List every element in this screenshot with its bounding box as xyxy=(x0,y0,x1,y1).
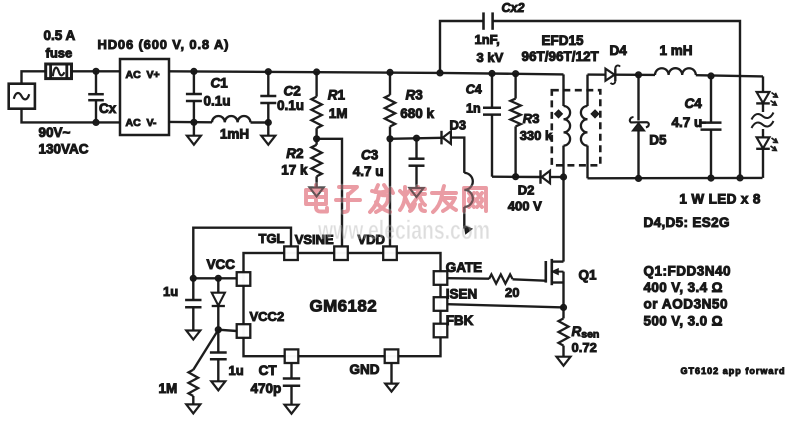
wire to C3 and D3 xyxy=(390,138,442,139)
capacitor VCC2 1u xyxy=(217,330,219,353)
svg-text:R3: R3 xyxy=(523,111,540,126)
fuse F1 0.5A xyxy=(46,64,72,79)
svg-text:20: 20 xyxy=(505,285,519,300)
svg-text:C2: C2 xyxy=(284,83,301,98)
node fuse-Cx junction xyxy=(93,68,99,74)
wire main HV bus xyxy=(169,71,564,74)
pin VCC xyxy=(237,272,251,286)
op-amp U1 GM6182 body xyxy=(244,253,441,356)
svg-text:V-: V- xyxy=(147,117,157,129)
wire D3 to aux winding xyxy=(451,138,464,173)
LED 1 xyxy=(757,92,770,103)
resistor Rsen 0.72 xyxy=(562,307,564,318)
wire VCC2 xyxy=(218,330,236,331)
ground under VCC cap xyxy=(186,331,200,340)
svg-text:www.elecians.com: www.elecians.com xyxy=(317,215,490,245)
svg-text:AC: AC xyxy=(126,117,142,129)
svg-text:3 kV: 3 kV xyxy=(477,50,504,65)
ground under C1 xyxy=(193,122,195,135)
node R1 top xyxy=(314,69,320,75)
wire inductor to LED xyxy=(696,75,763,76)
capacitor C1 xyxy=(193,71,195,94)
wire VSINE link xyxy=(317,139,342,247)
resistor R2 17k xyxy=(315,139,317,145)
svg-text:HD06 (600 V, 0.8 A): HD06 (600 V, 0.8 A) xyxy=(98,37,229,52)
LED 2 xyxy=(757,137,770,148)
svg-text:AC: AC xyxy=(126,69,142,81)
watermark chinese text xyxy=(306,185,486,212)
svg-text:R1: R1 xyxy=(328,88,346,103)
node drain junction xyxy=(560,174,566,180)
capacitor snubber C4 1n xyxy=(491,74,493,108)
svg-text:TGL: TGL xyxy=(259,231,285,246)
svg-text:or AOD3N50: or AOD3N50 xyxy=(644,296,728,311)
svg-text:0.72: 0.72 xyxy=(572,340,597,355)
node VCC cap junction xyxy=(190,275,196,281)
svg-text:470p: 470p xyxy=(251,381,282,396)
node snubber C top xyxy=(489,70,495,76)
svg-text:1 W LED x 8: 1 W LED x 8 xyxy=(679,192,760,207)
node Cx2 left xyxy=(437,70,443,76)
svg-text:130VAC: 130VAC xyxy=(39,141,89,156)
resistor snubber R3 330k xyxy=(514,74,516,99)
node C3 top xyxy=(413,135,419,141)
wire D2 to drain node xyxy=(551,176,564,178)
node C1 top xyxy=(191,68,197,74)
diode D4 xyxy=(606,69,615,81)
wire output rail xyxy=(588,177,763,180)
svg-text:D4,D5: ES2G: D4,D5: ES2G xyxy=(644,215,730,230)
wire clamp bottom xyxy=(492,175,541,178)
svg-text:400 V: 400 V xyxy=(508,199,542,214)
capacitor C2 xyxy=(267,72,269,96)
ground under Rsen xyxy=(557,357,571,366)
svg-text:0.1u: 0.1u xyxy=(277,98,304,113)
wire V- rail xyxy=(169,121,212,124)
ground under R2 xyxy=(310,188,324,197)
ground under C3 xyxy=(410,188,424,197)
resistor gate 20 xyxy=(489,274,513,283)
svg-text:0.5 A: 0.5 A xyxy=(44,28,76,43)
node VCC diode junction xyxy=(215,275,221,281)
svg-text:4.7 u: 4.7 u xyxy=(353,164,384,179)
wire after inductor xyxy=(251,121,269,123)
pin GND xyxy=(385,349,399,363)
node C1 bottom xyxy=(191,119,197,125)
svg-text:C3: C3 xyxy=(361,148,379,163)
svg-text:1mH: 1mH xyxy=(220,126,249,141)
svg-text:400 V, 3.4 Ω: 400 V, 3.4 Ω xyxy=(644,280,723,295)
svg-text:R3: R3 xyxy=(406,88,424,103)
wire LED string top xyxy=(762,76,764,92)
svg-text:90V~: 90V~ xyxy=(39,125,71,140)
svg-text:VCC: VCC xyxy=(207,257,236,272)
diode D5 zener xyxy=(637,75,639,121)
svg-text:C4: C4 xyxy=(685,96,703,111)
svg-text:4.7 u: 4.7 u xyxy=(672,115,703,130)
ground under VCC2 cap xyxy=(211,381,225,390)
svg-text:ISEN: ISEN xyxy=(446,287,478,302)
svg-text:1M: 1M xyxy=(159,381,178,396)
bridge rectifier HD06 xyxy=(120,59,169,135)
svg-text:680 k: 680 k xyxy=(400,106,434,121)
transformer primary dot xyxy=(555,110,563,118)
wire ISEN to source xyxy=(447,304,563,307)
wire D4 to node xyxy=(616,73,655,76)
node D5 top xyxy=(635,72,641,78)
node Cx bottom junction xyxy=(93,119,99,125)
svg-text:Q1:FDD3N40: Q1:FDD3N40 xyxy=(644,264,731,279)
svg-text:1M: 1M xyxy=(329,106,348,121)
watermark overlay tint xyxy=(306,185,486,212)
node VDD-C3 junction xyxy=(387,136,393,142)
wire aux winding end xyxy=(463,207,465,229)
transformer EFD15 core box xyxy=(552,90,601,165)
pin GATE xyxy=(434,271,448,285)
svg-text:0.1u: 0.1u xyxy=(204,94,231,109)
node C2 bottom xyxy=(265,119,271,125)
svg-text:CT: CT xyxy=(259,363,278,378)
node source junction xyxy=(560,304,566,310)
diode D2 xyxy=(539,170,541,184)
pin CT xyxy=(285,349,299,363)
wire drain line xyxy=(562,177,564,262)
pin VSINE xyxy=(334,246,348,260)
wire break to LED2 xyxy=(762,129,764,137)
transformer primary winding xyxy=(562,74,564,106)
wire AC bottom xyxy=(22,109,121,123)
svg-text:C4: C4 xyxy=(466,83,482,97)
wire GATE to resistor xyxy=(447,277,489,280)
inductor input 1mH xyxy=(212,116,250,122)
svg-text:1 mH: 1 mH xyxy=(660,43,693,58)
transformer secondary winding xyxy=(586,75,588,106)
ground under CT cap xyxy=(285,405,299,414)
pin FBK xyxy=(434,324,448,338)
svg-text:Q1: Q1 xyxy=(579,268,598,283)
node R1-R2 junction xyxy=(314,136,320,142)
wire TGL rail xyxy=(193,228,291,279)
wire LED1 to break xyxy=(762,103,764,112)
capacitor Cx2 1nF 3kV xyxy=(440,21,484,73)
svg-text:D2: D2 xyxy=(518,182,535,197)
node snubber R top xyxy=(513,71,519,77)
capacitor CT 470p xyxy=(290,363,292,379)
pin VDD xyxy=(383,246,397,260)
transformer secondary dot xyxy=(591,110,599,118)
svg-text:GM6182: GM6182 xyxy=(310,297,378,316)
node output C4 top xyxy=(708,73,714,79)
svg-text:D4: D4 xyxy=(610,43,628,58)
svg-text:FBK: FBK xyxy=(446,313,474,328)
wire secondary top xyxy=(588,73,605,75)
resistor 1M bleeder xyxy=(193,330,218,370)
resistor R3 680k xyxy=(389,72,391,95)
ground under C2 xyxy=(267,123,269,136)
capacitor C3 4.7u xyxy=(415,138,417,159)
transistor Q1 MOSFET xyxy=(544,261,547,283)
svg-text:96T/96T/12T: 96T/96T/12T xyxy=(522,49,600,64)
svg-text:GT6102 app forward: GT6102 app forward xyxy=(681,366,785,376)
inductor aux winding xyxy=(464,173,473,207)
svg-text:VCC2: VCC2 xyxy=(250,309,285,324)
pin ISEN xyxy=(434,297,448,311)
pin TGL xyxy=(284,246,298,260)
svg-text:330 k: 330 k xyxy=(520,128,553,143)
wire VCC xyxy=(193,277,236,279)
svg-text:GND: GND xyxy=(350,362,380,377)
svg-text:1u: 1u xyxy=(229,363,244,378)
svg-text:C1: C1 xyxy=(211,76,229,91)
capacitor Cx xyxy=(95,71,97,94)
pin VCC2 xyxy=(237,324,251,338)
svg-text:1u: 1u xyxy=(163,284,178,299)
svg-text:17 k: 17 k xyxy=(281,163,308,178)
svg-text:D3: D3 xyxy=(450,118,467,133)
node output C4 bottom xyxy=(708,175,714,181)
node clamp bottom xyxy=(513,174,519,180)
svg-text:1nF,: 1nF, xyxy=(475,32,500,47)
node D5 bottom xyxy=(635,175,641,181)
resistor R1 1M xyxy=(315,72,317,97)
wire VDD link xyxy=(389,139,391,247)
svg-text:500 V, 3.0 Ω: 500 V, 3.0 Ω xyxy=(644,313,723,328)
ground GND pin xyxy=(390,363,392,384)
wire AC top to fuse xyxy=(22,71,46,83)
diode D3 xyxy=(440,131,442,145)
wire fuse to bridge xyxy=(72,70,121,72)
svg-text:GATE: GATE xyxy=(446,260,483,275)
node R3 top xyxy=(387,69,393,75)
wire LED2 to rail xyxy=(762,149,764,178)
node Cx2 return xyxy=(737,175,743,181)
node VCC2 junction xyxy=(215,327,221,333)
svg-text:EFD15: EFD15 xyxy=(542,33,585,48)
AC source V1 xyxy=(9,84,35,109)
inductor output 1 mH xyxy=(655,68,696,75)
svg-text:1n: 1n xyxy=(466,101,481,115)
wire resistor to gate xyxy=(513,279,546,280)
capacitor output C4 4.7u xyxy=(710,76,712,123)
svg-text:D5: D5 xyxy=(649,133,667,148)
svg-text:V+: V+ xyxy=(147,69,160,81)
capacitor VCC 1u xyxy=(192,278,194,300)
LED string break mark xyxy=(752,113,774,120)
diode VCC to VCC2 xyxy=(217,278,219,292)
svg-text:Cx2: Cx2 xyxy=(502,1,525,15)
svg-text:fuse: fuse xyxy=(46,46,73,61)
svg-text:Cx: Cx xyxy=(99,101,117,116)
node C2 top xyxy=(265,69,271,75)
ground under 1M xyxy=(186,404,200,413)
svg-text:R2: R2 xyxy=(286,146,303,161)
